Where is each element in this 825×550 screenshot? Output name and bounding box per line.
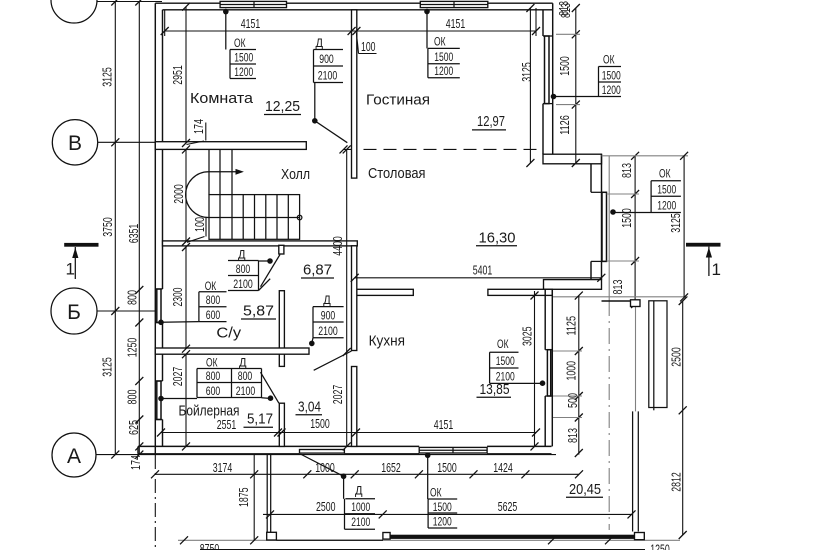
- svg-text:1200: 1200: [234, 65, 253, 79]
- right top dim line 813/1500/1126: [575, 8, 577, 163]
- svg-text:2100: 2100: [351, 515, 370, 529]
- svg-text:1250: 1250: [125, 338, 140, 358]
- svg-text:5625: 5625: [498, 499, 518, 514]
- svg-text:ОК: ОК: [206, 355, 218, 369]
- svg-text:1652: 1652: [381, 460, 401, 475]
- svg-text:1500: 1500: [619, 208, 634, 228]
- axis line Б: [97, 310, 155, 312]
- svg-text:А: А: [67, 445, 81, 468]
- svg-text:1000: 1000: [351, 500, 370, 514]
- svg-text:813: 813: [556, 1, 571, 16]
- walls group: [138, 1, 607, 476]
- svg-text:174: 174: [191, 119, 206, 134]
- bottom dim line 8750/1250: [178, 539, 680, 541]
- svg-text:Б: Б: [67, 301, 81, 324]
- svg-text:600: 600: [206, 384, 221, 398]
- table ОК 1500/1200 (Кухня bottom window): [425, 453, 457, 529]
- svg-text:16,30: 16,30: [479, 230, 516, 247]
- svg-text:600: 600: [206, 308, 221, 322]
- table ОК 1500/2100 (Кухня right window): [490, 337, 546, 386]
- svg-text:2100: 2100: [318, 69, 338, 83]
- Холл bottom (stairs) wall: [163, 241, 358, 246]
- top exterior wall outer line: [155, 2, 552, 4]
- svg-text:Комната: Комната: [190, 91, 254, 107]
- svg-text:1200: 1200: [657, 199, 676, 213]
- svg-text:8750: 8750: [200, 541, 220, 550]
- svg-text:1500: 1500: [310, 416, 330, 431]
- top exterior wall inner line: [163, 9, 553, 11]
- svg-text:Д: Д: [239, 355, 247, 369]
- svg-text:800: 800: [125, 290, 140, 305]
- Кухня right wall inner (gap at window): [544, 289, 546, 446]
- walk line arrow: [209, 171, 238, 173]
- interior vertical dim 3025 (Кухня): [534, 291, 536, 446]
- svg-text:Гостиная: Гостиная: [366, 93, 430, 109]
- svg-text:3125: 3125: [100, 67, 115, 87]
- svg-text:1500: 1500: [657, 183, 676, 197]
- svg-text:12,25: 12,25: [265, 98, 300, 115]
- svg-text:3125: 3125: [668, 213, 683, 233]
- svg-text:1200: 1200: [434, 64, 453, 78]
- axis line Г: [97, 1, 162, 3]
- window right (Гостиная): [545, 36, 550, 104]
- svg-text:1: 1: [712, 260, 721, 279]
- axes group: [51, 0, 609, 550]
- svg-text:1250: 1250: [650, 542, 670, 550]
- svg-text:3125: 3125: [100, 357, 115, 377]
- left exterior wall outer line: [154, 3, 156, 454]
- svg-text:Д: Д: [316, 36, 324, 50]
- right dim line 813/1500/813 (Столовая): [634, 156, 636, 304]
- interior vertical dim 2951/2000/2300/2027: [185, 7, 187, 447]
- svg-text:1126: 1126: [557, 115, 572, 135]
- svg-text:1500: 1500: [557, 56, 572, 76]
- svg-text:3750: 3750: [100, 217, 115, 237]
- svg-text:1500: 1500: [602, 69, 621, 83]
- svg-text:900: 900: [319, 52, 334, 66]
- svg-text:ОК: ОК: [659, 166, 671, 180]
- axis circle Г (top, cut off): [51, 0, 97, 23]
- right dim line 2500/2812 (terrace): [682, 301, 684, 535]
- svg-text:5,87: 5,87: [243, 303, 274, 320]
- svg-text:2027: 2027: [330, 385, 345, 405]
- window right (Кухня): [547, 350, 550, 396]
- axis line В: [98, 141, 156, 143]
- Бойлерная door leaf: [261, 372, 279, 403]
- table Д 900/2100 (Кухня door): [309, 293, 344, 346]
- left exterior wall inner line (gaps at С/у and Бойлерная windows): [162, 10, 164, 447]
- terrace bottom thin edge: [276, 539, 383, 541]
- dims group: [100, 0, 689, 550]
- svg-text:4400: 4400: [330, 236, 345, 256]
- svg-text:2500: 2500: [316, 499, 336, 514]
- svg-text:813: 813: [610, 280, 625, 295]
- Холл top wall: [155, 142, 306, 150]
- entrance door leaf: [300, 454, 343, 476]
- svg-text:1: 1: [66, 260, 75, 279]
- svg-text:813: 813: [619, 163, 634, 178]
- svg-text:174: 174: [128, 455, 143, 470]
- axis circle Б: [51, 288, 97, 334]
- svg-text:1500: 1500: [433, 500, 452, 514]
- svg-text:ОК: ОК: [603, 52, 615, 66]
- дверь Кухни leaf: [314, 351, 352, 370]
- table ОК 1500/1200 (Столовая right window): [610, 166, 681, 215]
- terrace bottom thick edge: [390, 535, 637, 539]
- bottom dim line 2551/1500/4151: [161, 432, 536, 434]
- svg-text:2100: 2100: [236, 384, 256, 398]
- dash-dot veranda boundary (right): [608, 156, 610, 300]
- Кухня right wall outer: [551, 289, 553, 446]
- svg-text:ОК: ОК: [205, 279, 217, 293]
- svg-text:2000: 2000: [171, 184, 186, 204]
- Столовая right wall inner line: [590, 164, 592, 280]
- svg-text:6,87: 6,87: [303, 261, 332, 278]
- bottom dim line 2500/5625: [263, 513, 633, 515]
- axis circle А: [52, 433, 96, 477]
- partition Холл/Кухня upper piece: [352, 246, 357, 351]
- svg-text:2100: 2100: [233, 277, 253, 291]
- svg-text:20,45: 20,45: [569, 481, 601, 498]
- tables group: [158, 9, 681, 530]
- svg-text:1125: 1125: [564, 316, 579, 336]
- terrace post middle: [383, 533, 390, 540]
- window left Бойлерная: [157, 381, 161, 420]
- Кухня top wall right segment: [488, 289, 552, 295]
- svg-text:Д: Д: [355, 484, 363, 498]
- right dim line 1125/1000/500/813 (Кухня): [578, 296, 580, 455]
- table ОК 1500/1200 (Гостиная top window): [424, 9, 460, 79]
- window bottom (Кухня): [419, 447, 487, 453]
- lower flight risers: [220, 195, 288, 240]
- svg-text:1500: 1500: [496, 354, 515, 368]
- svg-text:ОК: ОК: [434, 34, 446, 48]
- axis line А: [96, 454, 556, 456]
- svg-text:Столовая: Столовая: [368, 166, 426, 182]
- right dim line 3125 (Столовая overall): [683, 156, 685, 298]
- svg-text:1424: 1424: [493, 460, 513, 475]
- svg-text:1875: 1875: [236, 488, 251, 508]
- window left С/у: [157, 289, 161, 323]
- terrace left edge (double line): [267, 455, 271, 533]
- walk line U-turn arc: [186, 172, 209, 218]
- svg-text:800: 800: [206, 293, 221, 307]
- svg-text:12,97: 12,97: [477, 113, 505, 130]
- vertical dim 1875 (porch): [253, 455, 255, 541]
- svg-text:5,17: 5,17: [247, 411, 273, 428]
- window W1 top (Комната): [220, 1, 286, 7]
- left dim line 3125/3750/3125: [114, 2, 116, 456]
- table Д 1000/2100 (entrance door): [341, 474, 375, 530]
- svg-text:1500: 1500: [234, 51, 253, 65]
- svg-text:1000: 1000: [315, 460, 335, 475]
- svg-text:800: 800: [238, 369, 253, 383]
- right wall upper block outer: [552, 3, 554, 164]
- С/у right partition upper piece: [279, 291, 284, 367]
- svg-text:5401: 5401: [473, 263, 493, 278]
- svg-text:Бойлерная: Бойлерная: [179, 404, 240, 420]
- svg-text:2951: 2951: [170, 65, 185, 85]
- dim 3125 inside Гостиная: [529, 8, 531, 163]
- outside stair (right): [649, 301, 667, 408]
- dashed axis between Гостиная and Столовая: [344, 148, 544, 150]
- walk line: [209, 217, 300, 219]
- svg-text:1500: 1500: [437, 460, 457, 475]
- terrace right edge (double line): [635, 306, 637, 411]
- svg-text:2027: 2027: [170, 367, 185, 387]
- window W2 top (Гостиная): [420, 1, 488, 7]
- svg-text:800: 800: [236, 262, 251, 276]
- table ОК 800/600 (С/у window): [158, 279, 226, 325]
- dim line 5401 (Столовая width): [355, 277, 602, 279]
- terrace post left: [267, 532, 277, 540]
- svg-text:13,85: 13,85: [480, 381, 510, 398]
- Кухня top wall left segment: [357, 289, 414, 295]
- С/у door jamb box: [279, 245, 284, 254]
- table Д 900/2100 (Комната door): [312, 36, 347, 143]
- С/у bottom wall: [155, 348, 309, 354]
- table ОК 1500/1200 (Гостиная right window): [551, 52, 621, 99]
- terrace group: [267, 300, 667, 540]
- svg-text:2100: 2100: [318, 324, 338, 338]
- bottom exterior wall bottom line: [138, 453, 552, 455]
- svg-text:С/у: С/у: [216, 326, 242, 342]
- svg-text:ОК: ОК: [430, 486, 442, 500]
- svg-text:800: 800: [125, 390, 140, 405]
- window right (Столовая): [602, 192, 607, 261]
- svg-text:6351: 6351: [126, 224, 141, 244]
- partition Кухня/3.04 lower piece: [352, 367, 357, 447]
- Столовая bottom wall: [544, 280, 602, 290]
- right wall upper block inner (gap at window): [542, 10, 544, 154]
- upper flight risers: [209, 149, 232, 194]
- svg-text:1000: 1000: [564, 361, 579, 381]
- svg-text:Д: Д: [238, 247, 246, 261]
- left dim line 6351/800/1250/800/625/174: [138, 2, 140, 456]
- svg-text:ОК: ОК: [497, 337, 509, 351]
- Столовая right wall outer line: [601, 154, 603, 279]
- bottom dim line 3174/1000/1652/1500/1424: [155, 473, 579, 475]
- svg-text:4151: 4151: [434, 417, 454, 432]
- svg-text:625: 625: [126, 420, 141, 435]
- top dim line 4151+4151: [165, 30, 536, 32]
- svg-text:100: 100: [361, 39, 376, 54]
- svg-text:Холл: Холл: [281, 167, 310, 183]
- section mark 1 (left): [64, 243, 98, 247]
- svg-text:800: 800: [206, 369, 221, 383]
- table ОК 800/600 + Д 800/2100 (Бойлерная): [158, 355, 273, 401]
- svg-text:900: 900: [321, 308, 336, 322]
- С/у door leaf: [261, 255, 281, 287]
- svg-text:Кухня: Кухня: [369, 334, 405, 350]
- svg-text:3174: 3174: [213, 460, 233, 475]
- section mark 1 (right): [686, 243, 721, 247]
- svg-text:2812: 2812: [669, 472, 684, 492]
- lower flight outline: [209, 195, 300, 240]
- svg-text:3,04: 3,04: [298, 399, 321, 416]
- svg-text:1200: 1200: [433, 515, 452, 529]
- svg-text:2500: 2500: [669, 347, 684, 367]
- С/у right partition lower piece (Бойлерная): [279, 403, 284, 446]
- svg-text:1500: 1500: [434, 50, 453, 64]
- entrance door opening box: [300, 450, 345, 454]
- svg-text:В: В: [68, 132, 82, 155]
- interior vertical dim 4400/2027: [346, 149, 348, 446]
- labels group: [64, 1, 721, 498]
- bottom exterior wall top line: [138, 445, 552, 447]
- svg-text:3025: 3025: [520, 327, 535, 347]
- step wall between Гостиная and Столовая blocks: [543, 154, 602, 164]
- svg-text:ОК: ОК: [234, 36, 246, 50]
- stairs group: [186, 149, 302, 239]
- svg-text:813: 813: [565, 428, 580, 443]
- svg-text:2300: 2300: [170, 288, 185, 307]
- axis circle В: [52, 120, 97, 165]
- table Д 800/2100 (С/у door): [228, 247, 273, 291]
- terrace post top right: [631, 300, 641, 307]
- partition Комната/Гостиная + Холл/Столовая: [352, 10, 357, 178]
- svg-text:4151: 4151: [446, 16, 466, 31]
- svg-text:500: 500: [565, 393, 580, 408]
- svg-text:1200: 1200: [602, 83, 621, 97]
- left porch step edge: [137, 446, 139, 453]
- svg-text:100: 100: [192, 217, 207, 232]
- table ОК 1500/1200 (Комната top window): [223, 9, 256, 79]
- svg-text:Д: Д: [323, 293, 331, 307]
- dash-dot wall axis below А (left): [154, 455, 156, 550]
- svg-text:3125: 3125: [519, 62, 534, 82]
- svg-text:4151: 4151: [241, 16, 261, 31]
